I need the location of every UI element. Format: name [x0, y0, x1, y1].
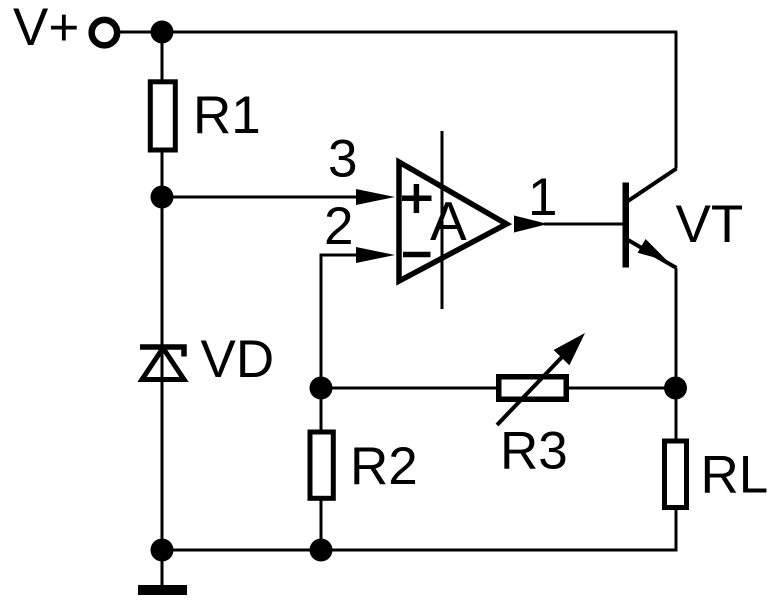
wire R2 top — [320, 388, 323, 432]
svg-text:2: 2 — [324, 197, 353, 256]
zener diode VD — [140, 347, 184, 380]
node R2 top junction — [310, 377, 333, 400]
svg-text:V+: V+ — [13, 0, 79, 57]
resistor R2 — [310, 432, 333, 498]
wire top rail — [118, 31, 677, 34]
arrow into pin 3 — [356, 189, 395, 205]
terminal V+ — [92, 20, 118, 46]
svg-text:1: 1 — [528, 168, 557, 227]
wire bottom rail — [162, 549, 677, 552]
resistor R1 — [150, 82, 175, 150]
wire node to ground — [161, 550, 164, 586]
svg-text:RL: RL — [701, 446, 769, 505]
wire pin 2 — [321, 255, 365, 388]
svg-text:R1: R1 — [193, 86, 261, 145]
wire emitter down — [675, 268, 678, 388]
wire VD branch — [161, 197, 164, 550]
wire RL bottom — [675, 507, 678, 551]
arrow into pin 2 — [356, 247, 395, 263]
node top-left junction — [151, 21, 174, 44]
svg-text:VD: VD — [201, 330, 275, 389]
svg-text:3: 3 — [328, 130, 357, 189]
transistor VT — [623, 169, 677, 269]
svg-text:VT: VT — [676, 195, 744, 254]
wire R2 bottom — [320, 498, 323, 550]
wire RL top — [675, 388, 678, 441]
wire R3 rail — [321, 387, 676, 390]
node bottom-left junction — [151, 539, 174, 562]
wire op-amp output to transistor base — [544, 223, 623, 226]
resistor RL — [665, 441, 687, 508]
op-amp minus input symbol — [403, 252, 431, 258]
wire V+ node to R1 — [161, 32, 164, 82]
variable resistor R3 — [497, 333, 585, 425]
svg-text:A: A — [430, 190, 467, 252]
op-amp power line — [441, 131, 444, 309]
node emitter-R3-RL junction — [664, 377, 687, 400]
svg-text:R2: R2 — [350, 437, 418, 496]
op-amp plus input symbol — [402, 184, 432, 213]
op-amp A triangle — [399, 162, 507, 281]
wire R1 to node — [161, 150, 164, 197]
wire node to op-amp pin 3 — [162, 196, 365, 199]
svg-text:R3: R3 — [500, 422, 568, 481]
node R1-VD junction — [151, 186, 174, 209]
op-amp output arrow — [514, 216, 548, 233]
node R2 bottom junction — [310, 539, 333, 562]
wire collector to top rail — [675, 32, 678, 169]
ground — [138, 585, 187, 595]
